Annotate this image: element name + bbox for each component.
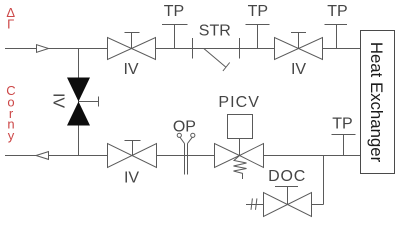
svg-text:IV: IV xyxy=(123,61,138,78)
svg-text:TP: TP xyxy=(327,3,347,20)
svg-text:y: y xyxy=(8,128,15,143)
svg-text:STR: STR xyxy=(199,23,231,40)
svg-text:TP: TP xyxy=(332,116,352,133)
svg-text:OP: OP xyxy=(173,119,196,136)
svg-text:TP: TP xyxy=(248,3,268,20)
svg-text:Γ: Γ xyxy=(7,17,14,32)
svg-text:DOC: DOC xyxy=(268,168,306,185)
svg-text:PICV: PICV xyxy=(218,94,260,111)
svg-text:IV: IV xyxy=(124,170,139,187)
svg-text:IV: IV xyxy=(291,61,306,78)
svg-text:IV: IV xyxy=(50,93,67,108)
svg-text:TP: TP xyxy=(164,3,184,20)
svg-text:Heat Exchanger: Heat Exchanger xyxy=(367,42,386,163)
